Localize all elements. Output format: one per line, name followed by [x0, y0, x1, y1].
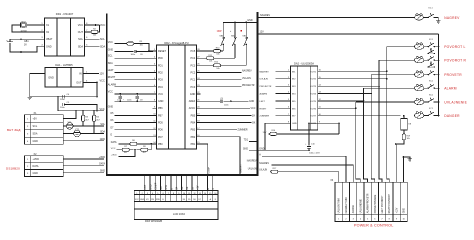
board boundary left thick line: [106, 14, 108, 176]
DA2 OUT2 wire: [322, 78, 388, 80]
net LEFT wire to DD2 pin4: [108, 69, 153, 73]
svg-text:+VDD: +VDD: [99, 157, 106, 159]
DA2 left pins: [287, 70, 298, 126]
X2 wires to boundary: [63, 157, 105, 173]
svg-text:D6: D6: [193, 199, 195, 201]
svg-text:GND: GND: [404, 208, 406, 213]
connector X3 labels: [338, 193, 406, 220]
LCD pin numbers: [136, 193, 216, 195]
svg-text:PB7: PB7: [158, 114, 163, 117]
svg-text:7: 7: [168, 193, 169, 195]
net SCL at U1 pin6: [89, 38, 105, 41]
svg-text:10k: 10k: [407, 138, 410, 140]
svg-text:PD0: PD0: [158, 57, 163, 60]
svg-text:SDA: SDA: [108, 62, 113, 65]
svg-text:UVLAJN: UVLAJN: [260, 78, 269, 81]
wire BRIGHT from pin16 down: [200, 137, 242, 176]
svg-text:GND: GND: [100, 170, 105, 172]
net GND wire to DD2 pin8: [108, 101, 153, 109]
svg-text:ZA: ZA: [252, 114, 255, 117]
svg-text:DATA: DATA: [33, 165, 39, 168]
svg-text:UVLAJNENIE: UVLAJNENIE: [359, 199, 362, 214]
svg-text:NAGREV: NAGREV: [260, 70, 270, 73]
svg-text:PD5: PD5: [158, 122, 163, 125]
svg-text:12V: 12V: [263, 132, 267, 134]
svg-text:GB1: GB1: [24, 41, 29, 43]
svg-text:NAGREV TAIM: NAGREV TAIM: [345, 198, 348, 214]
DD2 pin9 row: [111, 113, 153, 115]
net VCC wire to DD2 pin7: [108, 90, 153, 94]
svg-text:3V: 3V: [24, 44, 27, 46]
svg-text:SDA: SDA: [100, 45, 105, 48]
net DATA row with resistor R6: [111, 140, 153, 146]
bundle verticals to X3 connector: [356, 47, 389, 183]
resistor R16 12V row: [263, 122, 340, 135]
resistor R10 button row pin28: [200, 48, 223, 56]
LCD caption: [145, 220, 162, 223]
relay K7 row: [414, 108, 438, 118]
svg-text:SDA: SDA: [78, 45, 83, 48]
svg-text:ALARM: ALARM: [260, 93, 268, 96]
svg-text:PB1: PB1: [191, 143, 196, 146]
svg-text:R/W: R/W: [156, 199, 160, 201]
net VCC at U1 pin8: [89, 24, 105, 27]
net +VDD row: [111, 150, 135, 157]
svg-text:VCC: VCC: [108, 41, 113, 44]
net RIGHT wire to DD2 pin5: [108, 76, 153, 80]
svg-text:POVOROT R: POVOROT R: [444, 58, 466, 62]
LCD wires with rotated net labels: [144, 176, 215, 190]
svg-text:10k: 10k: [209, 61, 212, 63]
red label DS18B20: [6, 167, 20, 171]
svg-text:ZUMMER: ZUMMER: [238, 130, 248, 132]
svg-text:D4: D4: [183, 199, 185, 201]
svg-text:OK: OK: [252, 122, 256, 124]
svg-text:D5: D5: [188, 199, 190, 201]
svg-text:GND: GND: [140, 199, 145, 201]
U1 right pin names: [78, 24, 84, 48]
svg-text:+5V: +5V: [33, 118, 38, 121]
capacitor C4 100n: [57, 94, 98, 101]
svg-text:NAGREV: NAGREV: [259, 162, 269, 165]
net UVLAJN from DD2 pin24: [200, 77, 251, 80]
svg-text:GND: GND: [46, 45, 52, 48]
svg-text:UVLAJN TAIM: UVLAJN TAIM: [338, 198, 341, 213]
svg-text:ALARM PROVETR: ALARM PROVETR: [367, 193, 370, 213]
svg-text:DA2 - ULN2003A: DA2 - ULN2003A: [294, 61, 314, 65]
DA1 GND pin wire to ground bus: [30, 74, 97, 97]
net GND row right board: [258, 148, 310, 151]
load K1 heater: [415, 14, 428, 20]
X1 +5V wire to VCC rail: [63, 111, 76, 119]
svg-text:LEFT POVOROT: LEFT POVOROT: [382, 195, 384, 213]
svg-text:GND: GND: [33, 172, 39, 175]
crystal ZQ1 32768: [12, 21, 41, 32]
button SB3: [241, 22, 248, 65]
svg-text:PB5: PB5: [191, 114, 196, 117]
ground symbol NAGREV: [436, 21, 440, 23]
DA2 OUT1 wire: [322, 70, 388, 72]
svg-text:5: 5: [157, 193, 158, 195]
svg-text:RIGHT: RIGHT: [108, 76, 116, 79]
svg-text:VCC: VCC: [251, 108, 256, 110]
VCC rail above X1: [58, 105, 105, 112]
svg-text:OUT: OUT: [78, 31, 84, 34]
svg-text:DD3 WH1602B: DD3 WH1602B: [145, 220, 162, 223]
svg-text:3: 3: [147, 193, 148, 195]
svg-text:100n: 100n: [224, 104, 228, 106]
svg-text:R/W: R/W: [165, 184, 168, 189]
DD2 pin10 row: [111, 120, 153, 122]
net VCC at AVCC pin20: [200, 108, 255, 110]
DA2 GND pin wire: [265, 123, 287, 150]
svg-text:PB3: PB3: [191, 129, 196, 132]
relay K3 row: [379, 53, 439, 63]
relay K8 coil vertical: [401, 115, 412, 134]
svg-text:SCL: SCL: [33, 125, 38, 128]
svg-text:PD2: PD2: [158, 72, 163, 75]
net SDA wire to DD2 pin3: [108, 62, 153, 66]
connector X1: [25, 112, 64, 145]
svg-text:NAGREV: NAGREV: [242, 70, 252, 73]
svg-text:PC0: PC0: [191, 86, 196, 89]
svg-text:GND: GND: [48, 76, 54, 79]
button SB1: [217, 22, 225, 51]
DA2 OUT6 wire: [322, 107, 357, 109]
svg-text:PC3: PC3: [191, 64, 196, 67]
DA2 OUT4 wire: [322, 93, 373, 95]
relay K5 row: [364, 81, 439, 91]
svg-text:TD1: TD1: [244, 140, 249, 142]
svg-text:9: 9: [178, 193, 179, 195]
DA2 right pins: [310, 70, 321, 126]
svg-text:BRIGHT: BRIGHT: [241, 164, 243, 173]
svg-text:PROJECTR: PROJECTR: [260, 86, 272, 88]
svg-text:OUT4: OUT4: [310, 94, 317, 96]
svg-text:NAGREV: NAGREV: [444, 16, 460, 20]
svg-text:13: 13: [199, 193, 201, 195]
svg-text:OUT6: OUT6: [310, 108, 317, 110]
svg-text:OUT5: OUT5: [310, 101, 317, 103]
DD2 pin13 row: [111, 135, 153, 137]
net ZA at pin19: [200, 114, 255, 117]
net NAGREV from DD2 pin25: [200, 70, 252, 73]
svg-text:GND: GND: [292, 123, 297, 125]
svg-text:VCC: VCC: [78, 24, 83, 27]
board boundary bottom thick line: [106, 174, 258, 176]
resistor R3 pullup SCL: [82, 111, 90, 127]
svg-text:14: 14: [204, 193, 206, 195]
net SDA at U1 pin5: [89, 45, 105, 48]
svg-text:SDA: SDA: [33, 133, 38, 136]
net NAGREV long wire: [258, 14, 415, 18]
svg-text:12: 12: [193, 193, 195, 195]
svg-text:SCL: SCL: [100, 38, 105, 41]
svg-text:POWER & CONTROL: POWER & CONTROL: [354, 223, 393, 227]
svg-text:LCD 16X2: LCD 16X2: [173, 212, 186, 216]
svg-text:PB0: PB0: [158, 143, 163, 146]
svg-text:4: 4: [152, 193, 153, 195]
svg-text:DS18B20: DS18B20: [6, 167, 20, 171]
svg-text:VCC: VCC: [111, 148, 116, 150]
svg-text:U/LAJN: U/LAJN: [259, 169, 267, 172]
svg-text:AVCC: AVCC: [189, 107, 196, 110]
svg-text:PD1: PD1: [158, 64, 163, 67]
svg-text:DANGER: DANGER: [444, 114, 460, 118]
svg-text:UVLAJNENIE: UVLAJNENIE: [444, 100, 467, 104]
svg-text:PROVETR: PROVETR: [444, 73, 462, 77]
red label DANGER: [444, 114, 460, 118]
svg-text:+5V: +5V: [197, 185, 200, 190]
svg-text:PC5: PC5: [191, 50, 196, 53]
net GND to reset cap: [108, 49, 134, 52]
relay contact K1.1: [428, 8, 439, 21]
svg-text:PD6: PD6: [158, 129, 163, 132]
svg-text:SDA: SDA: [100, 131, 105, 134]
net SDA label left of boundary: [100, 131, 105, 134]
svg-text:RIGHT POVOROT: RIGHT POVOROT: [389, 193, 391, 213]
LCD pin cell labels: [135, 198, 217, 201]
wire +12V to X3 col9: [395, 144, 398, 182]
DD2 right pins: [189, 49, 201, 146]
svg-text:DATA: DATA: [111, 141, 117, 144]
svg-text:PB4: PB4: [191, 122, 196, 125]
svg-text:POVOROT L: POVOROT L: [444, 45, 465, 49]
svg-text:PD7: PD7: [158, 136, 163, 139]
svg-text:GND: GND: [247, 19, 253, 22]
capacitor C10 electrolytic: [305, 123, 320, 155]
svg-text:NAGREV: NAGREV: [260, 14, 271, 17]
svg-text:VCC: VCC: [108, 90, 113, 93]
wire COMP from pin15 down: [200, 144, 210, 176]
X1 GND wire: [63, 138, 105, 141]
svg-text:D7: D7: [198, 199, 200, 201]
svg-text:PC1: PC1: [191, 79, 196, 82]
left side label GND: [243, 148, 257, 150]
LCD 16x2 text: [173, 212, 186, 216]
relay K2 row: [387, 39, 439, 49]
svg-text:PB6: PB6: [158, 107, 163, 110]
GND rail above buttons: [223, 19, 256, 23]
net VCC row with resistors R7 R8: [111, 144, 152, 154]
red label POWER AND CONTROL: [354, 223, 393, 227]
svg-text:OUT1: OUT1: [310, 71, 317, 73]
net NAGREV row to X3: [259, 162, 353, 182]
svg-text:6: 6: [163, 193, 164, 195]
svg-text:GND: GND: [149, 184, 152, 190]
svg-text:11: 11: [188, 193, 190, 195]
net PROJECTR from DD2 pin23: [200, 85, 254, 87]
ground symbol at DA1: [28, 98, 32, 100]
svg-text:GND: GND: [33, 140, 39, 143]
svg-text:NAGREV: NAGREV: [247, 160, 257, 163]
svg-text:AREF: AREF: [189, 100, 196, 103]
relay K4 row: [371, 67, 438, 77]
red label ALARM: [444, 86, 457, 90]
relay K6 row: [356, 95, 439, 105]
svg-text:2: 2: [142, 193, 143, 195]
relay contact rail vertical: [438, 34, 440, 116]
svg-text:GND: GND: [190, 93, 196, 96]
svg-text:GND: GND: [243, 148, 248, 150]
svg-text:PROVETRIVANIE: PROVETRIVANIE: [374, 194, 377, 213]
resistor R11 button row pin27: [200, 55, 235, 63]
svg-text:32768: 32768: [20, 30, 27, 32]
board boundary right thick line: [256, 12, 258, 176]
transistor VT1: [63, 122, 104, 129]
svg-text:UVLAJN: UVLAJN: [248, 167, 257, 170]
svg-text:PROJECTR: PROJECTR: [242, 85, 255, 87]
net A row to X3: [259, 153, 346, 182]
resistor R5 10k reset pullup: [127, 41, 150, 52]
svg-text:VCC: VCC: [100, 24, 105, 27]
svg-text:RIGHT: RIGHT: [260, 108, 267, 110]
net 12V wire to relay rail: [258, 31, 438, 34]
IC DA2 ULN2003A: [291, 61, 318, 130]
left side label TD1: [244, 140, 257, 142]
svg-text:LEFT: LEFT: [260, 101, 266, 103]
svg-text:10k: 10k: [216, 68, 219, 70]
svg-text:GND: GND: [158, 100, 164, 103]
svg-text:VCC: VCC: [144, 184, 147, 189]
capacitor C5 100n: [58, 97, 97, 111]
net ZUMMER at pin17: [200, 130, 248, 132]
svg-text:VCC: VCC: [100, 80, 105, 83]
svg-text:+VDD: +VDD: [33, 158, 40, 161]
svg-text:OUT3: OUT3: [310, 86, 317, 88]
net OK at pin18: [200, 122, 255, 124]
svg-text:+12V: +12V: [397, 207, 399, 213]
svg-text:VCC: VCC: [158, 93, 163, 96]
svg-text:16: 16: [214, 193, 216, 195]
net SCL label left of boundary: [100, 123, 105, 126]
svg-text:COMP: COMP: [208, 166, 210, 173]
red label POVOROT R: [444, 58, 466, 62]
svg-text:ZUMMER: ZUMMER: [260, 116, 270, 118]
resistor R2 pullup on U1 OUT: [89, 25, 100, 37]
svg-text:COMP: COMP: [155, 182, 158, 190]
svg-text:SCL: SCL: [78, 38, 83, 41]
svg-text:+VDD: +VDD: [111, 154, 117, 156]
svg-text:AVARIA: AVARIA: [352, 205, 355, 214]
svg-text:LEFT: LEFT: [108, 69, 114, 72]
DD2 left pins: [153, 49, 167, 146]
DA2 input net labels: [260, 70, 287, 117]
svg-text:PC4: PC4: [191, 57, 196, 60]
svg-text:10: 10: [183, 193, 185, 195]
button SB2: [230, 22, 237, 58]
resistor R17 UVLAJN row: [259, 168, 338, 182]
DA1 OUT pin wire to VCC: [83, 80, 105, 84]
svg-text:DATA: DATA: [99, 163, 105, 166]
svg-text:GND: GND: [108, 49, 114, 52]
net VCC to reset resistor: [108, 41, 127, 44]
svg-text:ВНТ ЗНД: ВНТ ЗНД: [7, 128, 21, 132]
capacitor C6 reset: [131, 50, 153, 56]
left side label UVLAJN: [248, 167, 257, 170]
red label UVLAJNENIE: [444, 100, 467, 104]
red label NAGREV: [444, 16, 460, 20]
svg-text:RESET: RESET: [158, 50, 167, 53]
red label POVOROT L: [444, 45, 465, 49]
svg-text:SCL: SCL: [100, 123, 105, 126]
svg-text:10k: 10k: [216, 54, 219, 56]
svg-text:PC2: PC2: [191, 72, 196, 75]
svg-text:DD2 - ATmega48-PU: DD2 - ATmega48-PU: [164, 41, 188, 45]
svg-text:ALARM: ALARM: [108, 83, 116, 86]
COM wire to C10: [308, 122, 339, 124]
svg-text:RS: RS: [160, 186, 163, 190]
capacitor C7 100n decoupling: [117, 94, 125, 102]
svg-text:VCC: VCC: [135, 199, 140, 201]
IC DD2 ATmega48 MCU: [157, 41, 197, 149]
U1 right pin stubs and numbers: [85, 23, 90, 46]
resistor R4 pullup SDA: [93, 111, 101, 134]
net ALARM wire to DD2 pin6: [108, 83, 153, 87]
svg-text:PD4: PD4: [158, 86, 163, 89]
IC U1 DS1307 RTC: [45, 12, 85, 56]
connector X2: [25, 153, 64, 176]
red label SHT sensor connector: [7, 128, 21, 132]
svg-text:IN: IN: [79, 73, 82, 76]
DA1 IN pin wire to 12V: [83, 72, 104, 76]
net SCL wire to DD2 pin2: [108, 55, 153, 59]
svg-text:DD1 - DS1307: DD1 - DS1307: [56, 12, 74, 16]
DA2 OUT3 wire: [322, 85, 380, 87]
capacitor C8 100n decoupling: [127, 94, 143, 102]
svg-text:DA1 - LM7805: DA1 - LM7805: [55, 63, 73, 67]
svg-text:GND: GND: [100, 138, 106, 141]
DD2 pin11 row: [111, 127, 153, 129]
wire GND to X3 col10 with ground: [403, 156, 412, 182]
transistor VT2: [63, 129, 104, 137]
svg-text:OUT7: OUT7: [310, 116, 317, 118]
LCD module DD3 outline: [134, 191, 218, 220]
svg-text:VBAT: VBAT: [46, 38, 53, 41]
svg-text:OUT2: OUT2: [310, 79, 317, 81]
svg-text:100u x 25V: 100u x 25V: [309, 153, 320, 155]
IC DA1 LM7805 regulator: [45, 63, 83, 87]
red label PROVETR: [444, 73, 462, 77]
svg-text:PD3: PD3: [158, 79, 163, 82]
resistor R19: [395, 134, 411, 145]
U1 left pin stubs and numbers: [41, 23, 45, 46]
svg-text:PB2: PB2: [191, 136, 196, 139]
relay K2 K3 aux contacts: [428, 48, 435, 68]
U1 left pin names: [46, 24, 53, 48]
DA2 OUT5 wire: [322, 100, 365, 102]
svg-text:OUT: OUT: [76, 81, 82, 84]
svg-text:12V: 12V: [260, 31, 265, 34]
left side label NAGREV: [247, 160, 257, 163]
battery GB1 3V: [6, 38, 40, 53]
svg-text:1: 1: [136, 193, 137, 195]
svg-text:12V: 12V: [100, 73, 105, 76]
svg-text:VCC: VCC: [100, 108, 105, 111]
svg-text:UVLAJN: UVLAJN: [242, 77, 251, 80]
svg-text:GND: GND: [108, 106, 114, 109]
DA2 OUT7 wire to danger driver: [322, 115, 401, 117]
svg-text:СБР: СБР: [217, 30, 222, 33]
svg-text:15: 15: [209, 193, 211, 195]
svg-text:GND: GND: [249, 101, 254, 103]
connector X3 outline: [330, 180, 407, 221]
capacitor C9 on AREF: [200, 98, 254, 106]
svg-text:ALARM: ALARM: [444, 86, 457, 90]
resistor R12 button row pin26: [200, 62, 246, 70]
svg-text:8: 8: [173, 193, 174, 195]
svg-text:SCL: SCL: [108, 55, 113, 58]
